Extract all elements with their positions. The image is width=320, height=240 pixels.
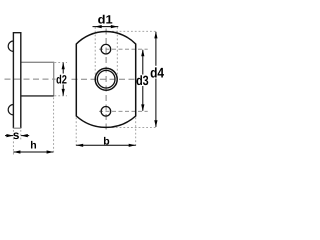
obround flange outline xyxy=(76,31,135,127)
boss top edge xyxy=(22,61,54,63)
dimension s xyxy=(5,135,29,137)
extension line boss right (h) xyxy=(53,98,55,155)
extension d4 bottom xyxy=(112,126,158,128)
dimension h xyxy=(13,151,53,153)
front view horizontal centerline xyxy=(72,78,137,80)
dimension d1 xyxy=(93,26,119,28)
lower hole arc on plate edge xyxy=(8,105,13,115)
boss right edge xyxy=(53,62,55,97)
dimension b xyxy=(76,144,136,146)
svg-text:h: h xyxy=(30,140,36,152)
svg-text:b: b xyxy=(103,135,109,147)
extension b left xyxy=(75,118,77,148)
extension line plate right (s) xyxy=(20,130,22,141)
big hole outer circle xyxy=(95,68,117,90)
dimension d3 xyxy=(142,50,144,111)
upper hole arc on plate edge xyxy=(8,41,13,51)
extension d2 top xyxy=(55,61,68,63)
bottom hole centerline to d3 xyxy=(99,110,148,112)
extension d1 left xyxy=(94,27,96,75)
svg-text:d2: d2 xyxy=(56,73,67,87)
svg-text:d3: d3 xyxy=(136,73,149,88)
svg-text:d1: d1 xyxy=(98,13,113,27)
extension d2 bottom xyxy=(55,95,68,97)
boss bottom edge xyxy=(22,95,54,97)
top hole centerline to d3 xyxy=(99,48,148,50)
front view vertical centerline xyxy=(105,29,107,131)
svg-text:d4: d4 xyxy=(150,64,164,80)
extension line plate left xyxy=(12,130,14,155)
extension d1 right xyxy=(116,27,118,75)
plate bottom edge xyxy=(13,127,20,129)
dimension d4 xyxy=(155,32,157,127)
bottom small hole xyxy=(101,107,111,117)
plate (side view flange) xyxy=(13,33,20,129)
extension b right xyxy=(135,118,137,148)
dimension d2 xyxy=(62,63,64,96)
big hole inner circle xyxy=(97,70,115,88)
side view centerline xyxy=(5,78,56,80)
top small hole xyxy=(101,44,111,54)
extension d4 top xyxy=(112,30,158,32)
